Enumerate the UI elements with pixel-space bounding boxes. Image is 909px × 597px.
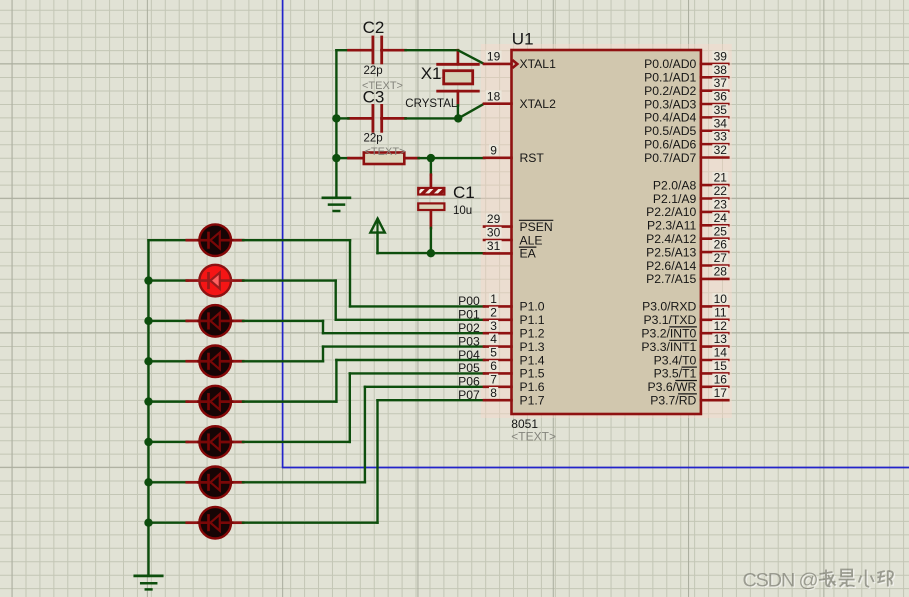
svg-text:P1.7: P1.7 — [520, 394, 545, 408]
junction rail/D2 — [144, 276, 152, 284]
pin 6 P1.5 stub — [484, 372, 512, 375]
svg-text:38: 38 — [714, 63, 728, 77]
svg-text:P03: P03 — [458, 334, 480, 348]
pin 7 P1.6 stub — [484, 385, 512, 388]
svg-text:P07: P07 — [458, 388, 480, 402]
wire RST junction down to C1 — [430, 158, 432, 175]
svg-text:C2: C2 — [363, 18, 385, 37]
svg-text:P3.5/T1: P3.5/T1 — [654, 367, 697, 381]
pin number 4 — [489, 333, 498, 344]
svg-text:14: 14 — [714, 346, 728, 360]
pin number 7 — [489, 374, 498, 385]
pin 29 PSEN stub — [484, 225, 512, 228]
pin 2 P1.1 stub — [484, 318, 512, 321]
LED D2 — [187, 265, 243, 297]
wire D2 to P1.1 — [243, 281, 484, 320]
pin 26 P2.5/A13 stub — [701, 251, 728, 254]
pin number 2 — [489, 307, 498, 318]
pin number 22 — [712, 185, 728, 196]
wire D8 to P1.7 — [243, 400, 484, 522]
pin number 33 — [712, 131, 728, 142]
svg-text:P01: P01 — [458, 308, 480, 322]
LED D7 — [187, 467, 243, 499]
crystal X1 — [438, 50, 479, 105]
svg-text:P0.6/AD6: P0.6/AD6 — [644, 137, 696, 151]
pin 28 P2.7/A15 stub — [701, 278, 728, 281]
svg-text:31: 31 — [487, 239, 501, 253]
LED D8 — [187, 507, 243, 539]
wire power to EA junction — [378, 252, 431, 254]
pin number 26 — [712, 239, 728, 250]
pin 5 P1.4 stub — [484, 359, 512, 362]
svg-text:10: 10 — [714, 292, 728, 306]
svg-text:23: 23 — [714, 198, 728, 212]
pin number 34 — [712, 118, 728, 129]
pin number 13 — [712, 333, 728, 344]
svg-text:21: 21 — [714, 171, 728, 185]
wire D1 to P1.0 — [243, 240, 484, 306]
svg-text:13: 13 — [714, 332, 728, 346]
pin number 9 — [489, 145, 498, 156]
wire D7 to P1.6 — [243, 387, 484, 483]
junction RST/C1 — [427, 154, 435, 162]
junction rail/D7 — [144, 478, 152, 486]
wire rail to D8 — [149, 521, 188, 523]
pin 1 P1.0 stub — [484, 305, 512, 308]
pin 31 EA stub — [484, 252, 512, 255]
svg-text:P04: P04 — [458, 348, 480, 362]
pin number 35 — [712, 104, 728, 115]
svg-text:33: 33 — [714, 130, 728, 144]
pin number 15 — [712, 360, 728, 371]
pin number 29 — [486, 213, 502, 224]
svg-text:CRYSTAL: CRYSTAL — [405, 98, 458, 110]
svg-text:36: 36 — [714, 90, 728, 104]
svg-text:25: 25 — [714, 224, 728, 238]
svg-text:P1.0: P1.0 — [520, 300, 545, 314]
wire junction to EA pin — [431, 252, 484, 254]
svg-text:P1.4: P1.4 — [520, 353, 545, 367]
pin number 27 — [712, 252, 728, 263]
pin number 1 — [489, 293, 498, 304]
svg-text:P0.4/AD4: P0.4/AD4 — [644, 111, 696, 125]
svg-text:P3.4/T0: P3.4/T0 — [654, 353, 697, 367]
svg-text:6: 6 — [490, 359, 497, 373]
LED D3 — [187, 305, 243, 337]
svg-text:P05: P05 — [458, 361, 480, 375]
pin 25 P2.4/A12 stub — [701, 237, 728, 240]
svg-text:P1.3: P1.3 — [520, 340, 545, 354]
svg-text:P2.6/A14: P2.6/A14 — [646, 259, 696, 273]
LED D1 — [187, 224, 243, 256]
pin number 21 — [712, 172, 728, 183]
svg-text:18: 18 — [487, 89, 501, 103]
svg-text:28: 28 — [714, 265, 728, 279]
pin 30 ALE stub — [484, 239, 512, 242]
junction rail/D8 — [144, 519, 152, 527]
pin 18 XTAL2 stub — [484, 102, 512, 105]
svg-text:P0.1/AD1: P0.1/AD1 — [644, 71, 696, 85]
wire crystal bottom to junction — [457, 105, 459, 118]
svg-text:P1.1: P1.1 — [520, 313, 545, 327]
svg-text:34: 34 — [714, 116, 728, 130]
svg-text:22: 22 — [714, 184, 728, 198]
pin 10 P3.0/RXD stub — [701, 305, 728, 308]
svg-text:11: 11 — [714, 305, 727, 319]
wire rail to D5 — [149, 400, 188, 402]
svg-text:5: 5 — [490, 346, 497, 360]
pin 37 P0.2/AD2 stub — [701, 89, 728, 92]
selection tint around U1 — [481, 44, 732, 418]
wire D5 to P1.4 — [243, 360, 484, 402]
svg-text:P0.7/AD7: P0.7/AD7 — [644, 151, 696, 165]
wire diagonal to XTAL1 — [458, 50, 484, 64]
svg-text:P0.0/AD0: P0.0/AD0 — [644, 57, 696, 71]
svg-text:RST: RST — [520, 151, 545, 165]
svg-text:37: 37 — [714, 76, 728, 90]
svg-text:35: 35 — [714, 103, 728, 117]
svg-text:12: 12 — [714, 319, 728, 333]
sheet border (blue) — [282, 0, 909, 468]
svg-text:17: 17 — [714, 386, 728, 400]
pin 23 P2.2/A10 stub — [701, 211, 728, 214]
wire C3 left — [336, 117, 348, 119]
svg-text:P3.2/INT0: P3.2/INT0 — [641, 327, 696, 341]
svg-text:10u: 10u — [453, 205, 472, 217]
wire rail to D2 — [149, 279, 188, 281]
pin 3 P1.2 stub — [484, 332, 512, 335]
wire junction to RST pin — [431, 157, 484, 159]
pin number 18 — [486, 91, 502, 102]
pin 24 P2.3/A11 stub — [701, 224, 728, 227]
svg-text:P1.2: P1.2 — [520, 327, 545, 341]
pin number 19 — [486, 51, 502, 62]
pin 9 RST stub — [484, 157, 512, 160]
svg-text:P2.4/A12: P2.4/A12 — [646, 232, 696, 246]
junction rail/D4 — [144, 357, 152, 365]
svg-text:EA: EA — [520, 247, 537, 261]
svg-text:C3: C3 — [363, 87, 385, 106]
wire LED cathode rail vertical — [147, 240, 149, 576]
svg-text:XTAL1: XTAL1 — [520, 57, 557, 71]
pin number 30 — [486, 227, 502, 238]
pin 19 XTAL1 stub — [484, 63, 512, 66]
pin number 38 — [712, 64, 728, 75]
svg-text:15: 15 — [714, 359, 728, 373]
pin number 24 — [712, 212, 728, 223]
svg-text:ALE: ALE — [520, 233, 543, 247]
svg-text:P2.2/A10: P2.2/A10 — [646, 205, 696, 219]
pin 15 P3.5/T1 stub — [701, 372, 728, 375]
svg-text:P2.1/A9: P2.1/A9 — [653, 192, 697, 206]
wire rail to D3 — [149, 320, 188, 322]
pin number 8 — [489, 387, 498, 398]
wire C3 to crystal bottom — [406, 117, 459, 119]
pin 8 P1.7 stub — [484, 399, 512, 402]
svg-text:P00: P00 — [458, 294, 480, 308]
svg-text:P0.5/AD5: P0.5/AD5 — [644, 124, 696, 138]
svg-text:P2.3/A11: P2.3/A11 — [647, 219, 696, 233]
wire rail to D6 — [149, 441, 188, 443]
watermark CSDN — [743, 569, 895, 592]
wire rail to D1 — [149, 239, 188, 241]
wire rail to R1 — [336, 157, 348, 159]
pin 33 P0.6/AD6 stub — [701, 143, 728, 146]
svg-text:P0.3/AD3: P0.3/AD3 — [644, 97, 696, 111]
pin number 3 — [489, 320, 498, 331]
pin 35 P0.4/AD4 stub — [701, 116, 728, 119]
svg-text:P3.3/INT1: P3.3/INT1 — [641, 340, 696, 354]
svg-text:<TEXT>: <TEXT> — [365, 146, 406, 158]
pin 32 P0.7/AD7 stub — [701, 156, 728, 159]
wire C1 bottom to EA row — [430, 228, 432, 253]
pin number 39 — [712, 51, 728, 62]
svg-text:8: 8 — [490, 386, 497, 400]
pin number 23 — [712, 199, 728, 210]
pin number 31 — [486, 240, 502, 251]
svg-text:<TEXT>: <TEXT> — [511, 430, 556, 444]
wire D4 to P1.3 — [243, 347, 484, 362]
junction crystal/C3/XTAL2 — [454, 114, 462, 122]
pin number 16 — [712, 374, 728, 385]
svg-text:P2.5/A13: P2.5/A13 — [646, 245, 696, 259]
svg-text:CSDN @: CSDN @ — [743, 569, 818, 591]
capacitor C3 — [349, 105, 406, 131]
svg-text:P06: P06 — [458, 375, 480, 389]
pin 39 P0.0/AD0 stub — [701, 63, 728, 66]
junction EA/C1 — [427, 249, 435, 257]
svg-text:16: 16 — [714, 372, 728, 386]
svg-text:22p: 22p — [364, 65, 383, 77]
wire R1 to RST junction — [419, 157, 431, 159]
svg-text:P3.1/TXD: P3.1/TXD — [643, 313, 696, 327]
LED D4 — [187, 346, 243, 378]
svg-text:19: 19 — [487, 50, 501, 64]
svg-text:P2.7/A15: P2.7/A15 — [646, 272, 696, 286]
pin 38 P0.1/AD1 stub — [701, 76, 728, 79]
wire rail to D7 — [149, 481, 188, 483]
svg-text:2: 2 — [490, 305, 497, 319]
pin number 37 — [712, 77, 728, 88]
pin 21 P2.0/A8 stub — [701, 184, 728, 187]
junction rail/D5 — [144, 397, 152, 405]
ground (oscillator) — [323, 198, 350, 211]
pin number 28 — [712, 266, 728, 277]
svg-text:XTAL2: XTAL2 — [520, 97, 557, 111]
clock marker XTAL1 — [512, 60, 517, 68]
svg-text:26: 26 — [714, 238, 728, 252]
wire left vertical (C2/C3/R rail) — [335, 50, 337, 198]
pin 11 P3.1/TXD stub — [701, 318, 728, 321]
wire rail to D4 — [149, 360, 188, 362]
svg-text:7: 7 — [490, 372, 497, 386]
svg-text:X1: X1 — [421, 64, 442, 83]
svg-text:3: 3 — [490, 319, 497, 333]
pin number 17 — [712, 387, 728, 398]
LED D6 — [187, 426, 243, 458]
wire diagonal to XTAL2 — [458, 104, 484, 119]
pin number 6 — [489, 360, 498, 371]
wire C2 to crystal corner — [406, 49, 458, 51]
svg-text:PSEN: PSEN — [520, 220, 553, 234]
pin number 36 — [712, 91, 728, 102]
svg-text:P0.2/AD2: P0.2/AD2 — [644, 84, 696, 98]
pin number 25 — [712, 226, 728, 237]
svg-text:32: 32 — [714, 143, 728, 157]
svg-text:4: 4 — [490, 332, 497, 346]
junction rail/C3 — [332, 114, 340, 122]
pin 36 P0.3/AD3 stub — [701, 103, 728, 106]
LED D5 — [187, 386, 243, 418]
svg-text:39: 39 — [714, 50, 728, 64]
pin 16 P3.6/WR stub — [701, 385, 728, 388]
pin 34 P0.5/AD5 stub — [701, 129, 728, 132]
power terminal (VCC arrow) — [370, 219, 384, 254]
capacitor C1 (electrolytic) — [418, 175, 444, 228]
svg-text:P3.0/RXD: P3.0/RXD — [642, 300, 696, 314]
pin number 10 — [712, 293, 728, 304]
pin number 5 — [489, 347, 498, 358]
svg-text:P2.0/A8: P2.0/A8 — [653, 178, 697, 192]
svg-text:24: 24 — [714, 211, 728, 225]
svg-text:27: 27 — [714, 251, 728, 265]
pin 17 P3.7/RD stub — [701, 399, 728, 402]
svg-text:P3.6/WR: P3.6/WR — [648, 380, 697, 394]
pin 12 P3.2/INT0 stub — [701, 332, 728, 335]
pin number 12 — [712, 320, 728, 331]
pin 4 P1.3 stub — [484, 345, 512, 348]
pin 27 P2.6/A14 stub — [701, 264, 728, 267]
pin number 14 — [712, 347, 728, 358]
pin 13 P3.3/INT1 stub — [701, 345, 728, 348]
junction rail/R1 — [332, 154, 340, 162]
pin number 32 — [712, 144, 728, 155]
svg-text:9: 9 — [490, 143, 497, 157]
svg-text:P1.6: P1.6 — [520, 380, 545, 394]
svg-text:P02: P02 — [458, 321, 480, 335]
svg-text:P3.7/RD: P3.7/RD — [650, 394, 696, 408]
wire D3 to P1.2 — [243, 321, 484, 333]
wire D6 to P1.5 — [243, 373, 484, 442]
resistor R1 — [349, 153, 419, 165]
svg-text:29: 29 — [487, 212, 501, 226]
capacitor C2 — [349, 37, 406, 63]
svg-text:22p: 22p — [364, 132, 383, 144]
ground (LED rail) — [135, 576, 162, 590]
svg-text:C1: C1 — [453, 183, 475, 202]
wire C2 row — [336, 49, 348, 51]
junction rail/D6 — [144, 438, 152, 446]
junction rail/D3 — [144, 317, 152, 325]
svg-text:U1: U1 — [512, 30, 534, 49]
svg-text:P1.5: P1.5 — [520, 367, 545, 381]
pin 14 P3.4/T0 stub — [701, 359, 728, 362]
pin 22 P2.1/A9 stub — [701, 197, 728, 200]
op chip U1 body — [512, 50, 701, 414]
svg-text:1: 1 — [490, 292, 497, 306]
pin number 11 — [712, 307, 728, 318]
svg-text:30: 30 — [487, 226, 501, 240]
